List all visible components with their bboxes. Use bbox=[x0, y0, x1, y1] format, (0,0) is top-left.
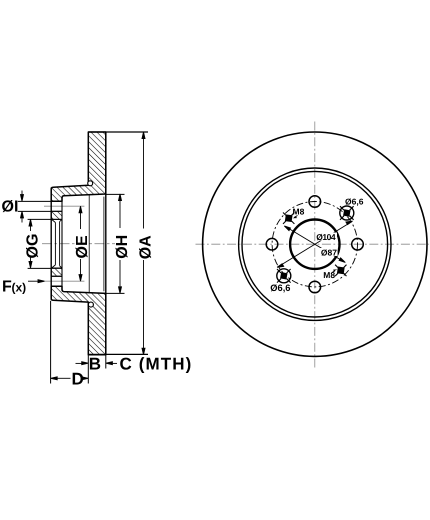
svg-text:F: F bbox=[2, 279, 12, 296]
dimension Ø104 diagonal bbox=[277, 221, 352, 267]
bolt hole S bbox=[309, 281, 321, 293]
bolt hole E bbox=[352, 238, 364, 250]
svg-text:Ø6,6: Ø6,6 bbox=[345, 197, 364, 207]
friction ring outer bbox=[239, 168, 391, 320]
dimension ØI bbox=[21, 191, 24, 223]
dimension B bbox=[76, 362, 118, 365]
svg-text:(x): (x) bbox=[12, 281, 27, 295]
relief groove top bbox=[88, 181, 93, 186]
M8 threaded hole SE bbox=[335, 265, 346, 276]
svg-text:B: B bbox=[89, 355, 101, 374]
svg-text:D: D bbox=[72, 369, 84, 388]
dimension ØA bbox=[142, 132, 145, 355]
bolt circle (dashed) bbox=[272, 202, 357, 287]
label M8 SE with leader bbox=[323, 269, 337, 280]
svg-text:ØA: ØA bbox=[137, 235, 154, 259]
hat face block between bolt hole and bore (top) bbox=[51, 211, 62, 219]
center bore inner edges bbox=[52, 219, 62, 268]
rotor visible inner edges (mid) bbox=[89, 195, 104, 293]
dimension F(x) leader bbox=[28, 280, 45, 283]
bolt hole N bbox=[309, 196, 321, 208]
hat face outer edge (continuous) bbox=[50, 188, 52, 300]
ØH top ext bbox=[106, 193, 125, 195]
axis centerline (section) bbox=[42, 243, 115, 245]
svg-text:C (MTH): C (MTH) bbox=[120, 355, 193, 374]
horizontal centerline bbox=[196, 243, 430, 245]
ØH bottom ext bbox=[106, 292, 125, 294]
ØI top ext / bolt hole top edge bbox=[18, 200, 62, 202]
svg-text:M8: M8 bbox=[293, 206, 305, 216]
B/D extension verticals bbox=[87, 355, 89, 384]
M8 threaded hole NW bbox=[283, 213, 294, 224]
bolt hole W bbox=[266, 238, 278, 250]
ØA bottom ext (rotor bottom edge) bbox=[88, 353, 148, 355]
dimension Ø87 diagonal bbox=[284, 226, 345, 263]
ØI bottom ext / bolt hole bottom edge bbox=[18, 210, 62, 212]
svg-text:ØI: ØI bbox=[2, 198, 19, 215]
hat/rotor lower hatched section bbox=[51, 286, 106, 355]
bottom bolt hole edges bbox=[51, 275, 62, 277]
label Ø87 bbox=[320, 247, 338, 257]
label Ø104 bbox=[316, 232, 338, 242]
svg-text:Ø6,6: Ø6,6 bbox=[270, 283, 290, 293]
vertical centerline bbox=[314, 122, 316, 368]
ØA top ext (rotor top edge) bbox=[88, 131, 148, 133]
dimension ØH bbox=[119, 194, 122, 293]
bolt hole centerline top bbox=[44, 205, 84, 207]
Ø6,6 hole NE bbox=[340, 206, 354, 220]
dimension ØG bbox=[29, 219, 32, 268]
ØG bottom ext / bore bottom edge bbox=[28, 267, 62, 269]
svg-text:ØE: ØE bbox=[74, 235, 91, 258]
svg-text:Ø104: Ø104 bbox=[316, 232, 336, 242]
friction ring inner bbox=[242, 171, 388, 317]
bolt hole centerline bottom bbox=[45, 280, 85, 282]
hat face block between bore and bolt hole (bottom) bbox=[51, 268, 62, 276]
ØG top ext / bore top edge bbox=[28, 218, 62, 220]
label M8 NW with leader bbox=[293, 206, 305, 218]
dimension ØE bbox=[79, 206, 82, 281]
center bore bbox=[290, 220, 339, 269]
svg-text:ØG: ØG bbox=[24, 234, 41, 259]
rotor right edge full bbox=[105, 132, 107, 355]
outer circle bbox=[203, 132, 427, 356]
extension lines bbox=[18, 132, 148, 384]
hat face inner edge (continuous) bbox=[61, 198, 63, 290]
Ø6,6 hole SW bbox=[277, 269, 291, 283]
relief groove bottom bbox=[88, 302, 93, 307]
svg-text:ØH: ØH bbox=[114, 235, 131, 259]
hat/rotor upper hatched section bbox=[51, 132, 106, 201]
dimension D bbox=[51, 377, 89, 380]
svg-text:Ø87: Ø87 bbox=[321, 247, 337, 257]
